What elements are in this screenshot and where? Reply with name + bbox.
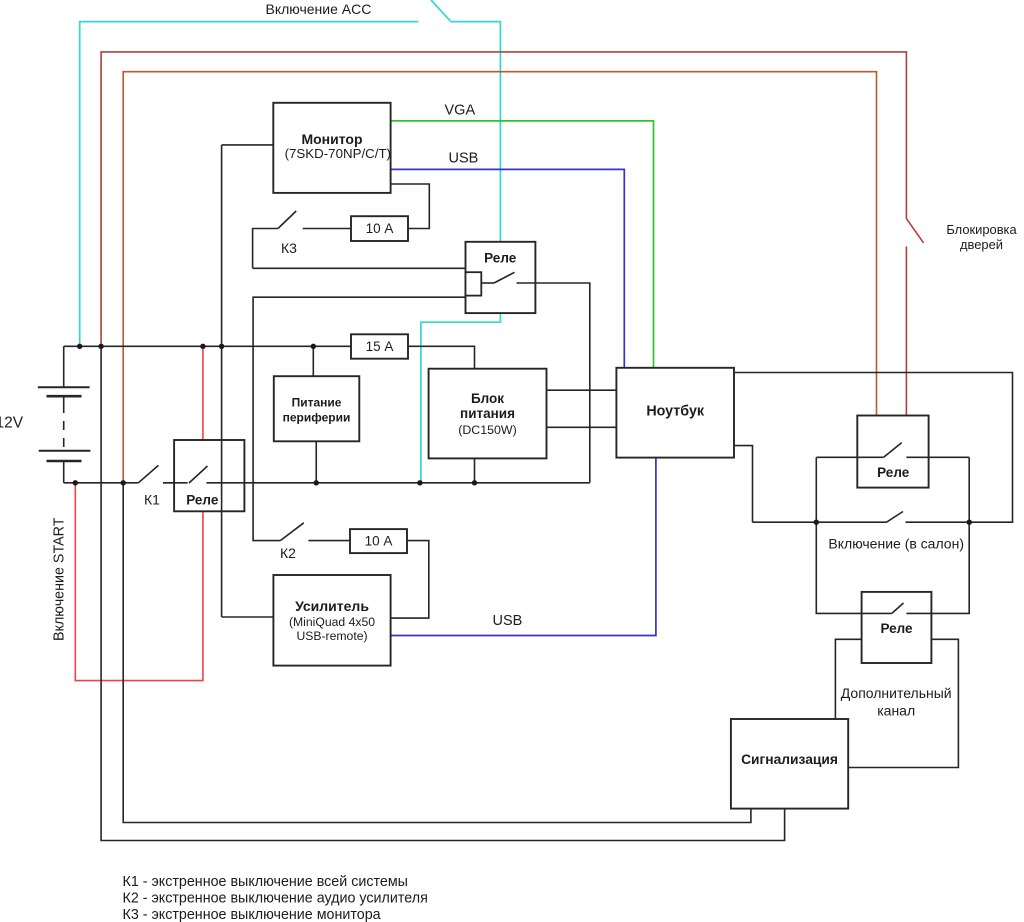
wire door-lock branch 2 orange (123, 72, 876, 483)
svg-text:дверей: дверей (960, 237, 1003, 252)
relay U1 monitor relay (466, 242, 590, 483)
svg-text:USB: USB (449, 151, 479, 167)
svg-text:Включение START: Включение START (52, 517, 68, 641)
wire alarm to bottom bus lower (101, 346, 785, 840)
svg-text:Сигнализация: Сигнализация (741, 752, 838, 767)
wire laptop top right to salon right (734, 373, 1013, 523)
svg-text:USB-remote): USB-remote) (296, 629, 367, 643)
svg-text:10 А: 10 А (365, 534, 393, 549)
svg-text:Монитор: Монитор (301, 131, 362, 147)
svg-text:К3: К3 (281, 240, 297, 256)
svg-text:Реле: Реле (484, 251, 517, 266)
svg-text:Включение ACC: Включение ACC (266, 1, 372, 17)
svg-text:(7SKD-70NP/C/T): (7SKD-70NP/C/T) (285, 146, 391, 161)
wire K2 fuse to amplifier (391, 541, 429, 619)
label door lock net (946, 222, 1017, 252)
svg-text:периферии: периферии (283, 411, 351, 425)
wire VGA green (391, 121, 654, 368)
relay U3 door-lock relay (816, 416, 969, 488)
wire monitor feed vertical (222, 144, 274, 146)
wire auxiliary channel loop rectangle (835, 639, 958, 767)
wire USB blue monitor-laptop (391, 169, 625, 367)
node salon line junctions (814, 520, 972, 525)
peripherals power block (274, 376, 360, 441)
wire salon to relay4 (816, 522, 969, 613)
wire USB blue laptop-amplifier (391, 458, 656, 636)
svg-text:Реле: Реле (877, 465, 910, 480)
svg-text:Ноутбук: Ноутбук (646, 404, 705, 420)
alarm block (731, 719, 848, 809)
node bottom bus junctions (73, 480, 478, 485)
svg-text:Дополнительный: Дополнительный (841, 685, 952, 701)
wire amplifier feed (222, 616, 274, 618)
node top bus junctions (77, 344, 316, 349)
wire salon switch line (753, 512, 970, 523)
wire amplifier feed vertical over K1 relay (221, 145, 223, 617)
amplifier block (273, 575, 390, 666)
svg-text:К2: К2 (280, 545, 296, 561)
wire PSU to laptop lower (547, 426, 617, 428)
svg-text:К2 - экстренное выключение ауд: К2 - экстренное выключение аудио усилите… (123, 891, 428, 907)
svg-text:10 А: 10 А (366, 221, 394, 236)
wire ACC cyan net (80, 0, 501, 483)
wire relay coil lower to K2 (253, 297, 465, 540)
svg-text:Включение (в салон): Включение (в салон) (828, 536, 964, 552)
laptop block (616, 368, 734, 458)
wire START red K1 coil circuit (75, 346, 203, 680)
switch K1 (138, 465, 187, 482)
wire peripherals bottom (315, 441, 317, 483)
svg-text:Блок: Блок (471, 391, 504, 406)
svg-text:Питание: Питание (292, 396, 342, 410)
svg-text:(DC150W): (DC150W) (458, 423, 517, 437)
svg-text:К1: К1 (144, 492, 160, 508)
svg-text:VGA: VGA (445, 102, 476, 118)
svg-text:12V: 12V (0, 414, 24, 431)
monitor block (273, 103, 391, 193)
wire peripherals top (312, 346, 314, 376)
svg-text:15 А: 15 А (366, 339, 394, 354)
fuse 15A (351, 334, 408, 358)
svg-text:Реле: Реле (186, 493, 219, 508)
svg-text:Реле: Реле (880, 621, 913, 636)
wire PSU to laptop upper (547, 389, 617, 391)
wire top supply bus (64, 346, 475, 368)
legend notes K1 K2 K3 (123, 874, 428, 922)
wire laptop bottom right to salon left (734, 446, 753, 523)
svg-text:К1 - экстренное выключение все: К1 - экстренное выключение всей системы (123, 874, 408, 890)
svg-text:USB: USB (493, 613, 523, 629)
wire relay coil upper (253, 267, 466, 269)
svg-text:(MiniQuad 4x50: (MiniQuad 4x50 (289, 615, 375, 629)
wire PSU bottom (474, 458, 476, 482)
svg-text:Усилитель: Усилитель (295, 598, 369, 614)
wire monitor K3 fuse loop (303, 184, 430, 229)
relay U4 aux channel relay (862, 592, 932, 663)
battery 12V (38, 346, 91, 483)
switch K2 (280, 523, 351, 541)
wire bottom supply bus left part (64, 482, 139, 484)
svg-text:питания: питания (460, 406, 515, 421)
fuse 10A amplifier (350, 529, 407, 553)
PSU block DC150W (429, 369, 547, 459)
wire relay3 drops to salon line (816, 457, 969, 522)
fuse 10A monitor (351, 216, 408, 241)
svg-text:Блокировка: Блокировка (946, 222, 1017, 237)
label aux channel (841, 685, 952, 718)
wire alarm to bottom bus upper (123, 483, 751, 823)
svg-text:К3 - экстренное выключение мон: К3 - экстренное выключение монитора (123, 907, 381, 922)
svg-text:канал: канал (877, 702, 915, 718)
relay K1 block (163, 440, 590, 511)
wire door-lock branch 1 dark red with switch (101, 52, 924, 416)
switch K3 (253, 211, 297, 268)
